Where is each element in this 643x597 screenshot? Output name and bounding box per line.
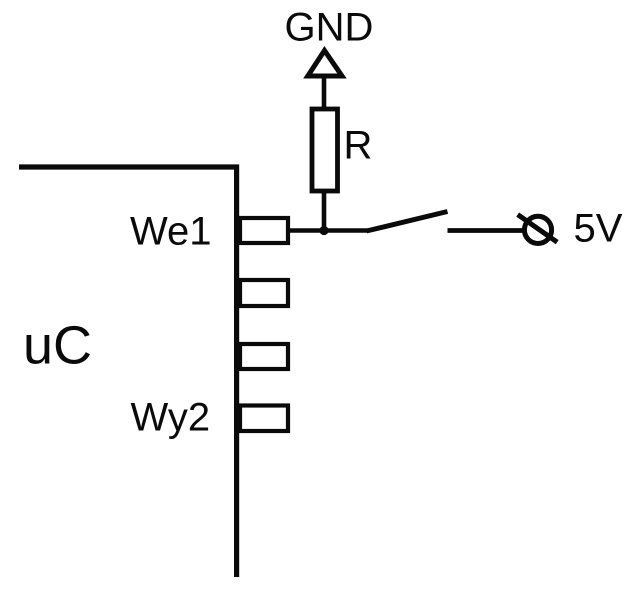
resistor R: [312, 109, 338, 191]
switch S1 blade: [367, 212, 448, 232]
svg-text:GND: GND: [285, 6, 374, 50]
terminal 5V (circle): [524, 216, 551, 243]
pin Wy2 (pin box 4): [240, 406, 288, 432]
wire pin We1 to switch: [289, 228, 368, 233]
svg-text:5V: 5V: [574, 207, 623, 251]
pin We1 (pin box 1): [240, 218, 288, 243]
ground symbol (triangle): [308, 51, 342, 77]
pin 2 (unlabelled pin box): [240, 280, 288, 306]
pin 3 (unlabelled pin box): [240, 344, 288, 369]
svg-text:R: R: [344, 124, 373, 168]
microcontroller U1 (uC box outline, top and right edges): [19, 167, 237, 577]
wire switch to 5V terminal: [448, 228, 524, 233]
svg-text:Wy2: Wy2: [131, 396, 211, 440]
terminal 5V (slash): [518, 215, 558, 243]
svg-text:uC: uC: [23, 316, 92, 376]
node junction dot: [319, 226, 328, 235]
wire resistor to node: [322, 191, 327, 231]
svg-text:We1: We1: [130, 210, 212, 254]
wire ground to resistor: [322, 76, 327, 108]
